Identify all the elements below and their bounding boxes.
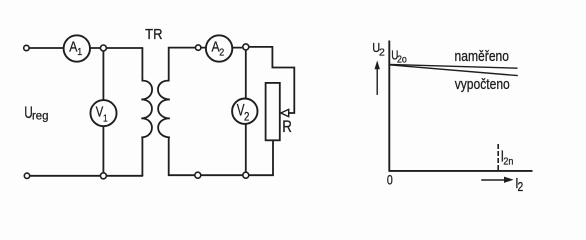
svg-text:vypočteno: vypočteno — [455, 76, 510, 92]
svg-text:reg: reg — [32, 109, 48, 122]
svg-text:2o: 2o — [397, 54, 407, 66]
svg-text:R: R — [282, 119, 292, 136]
svg-text:1: 1 — [103, 112, 108, 124]
svg-text:0: 0 — [387, 172, 393, 188]
svg-text:2: 2 — [244, 111, 249, 124]
svg-text:1: 1 — [77, 47, 82, 59]
svg-text:2: 2 — [518, 181, 524, 194]
svg-text:2n: 2n — [503, 156, 513, 168]
svg-text:TR: TR — [145, 26, 162, 42]
svg-text:2: 2 — [379, 46, 385, 58]
svg-text:A: A — [69, 39, 77, 55]
svg-text:2: 2 — [219, 47, 224, 59]
svg-text:naměřeno: naměřeno — [455, 48, 510, 64]
